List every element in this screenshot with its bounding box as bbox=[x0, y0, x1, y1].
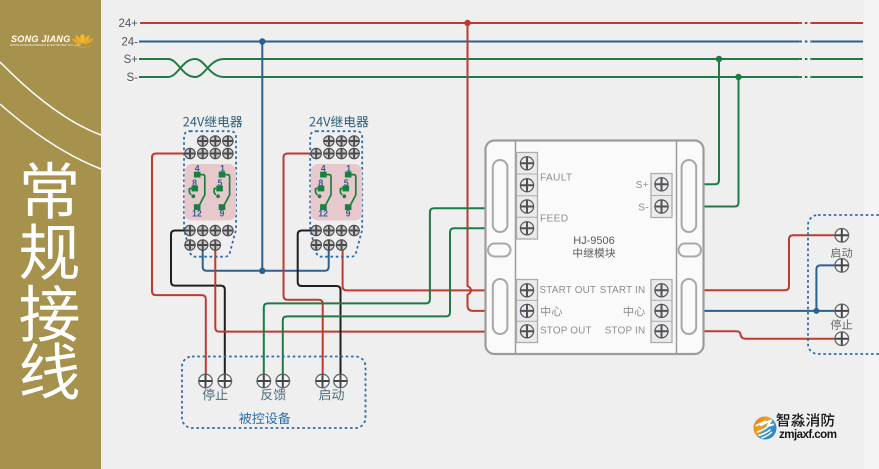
svg-text:START OUT: START OUT bbox=[540, 285, 597, 296]
svg-text:1: 1 bbox=[346, 164, 351, 174]
relay K1 dashed outline bbox=[184, 131, 236, 257]
svg-text:24+: 24+ bbox=[118, 18, 138, 30]
module left lower terminal block bbox=[517, 280, 538, 343]
svg-text:S-: S- bbox=[638, 202, 649, 213]
wire module 中心 to 停止 (blue) bbox=[703, 310, 835, 312]
controlled device dashed box 被控设备 bbox=[182, 357, 366, 429]
wire module STOP IN to 停止 (red) bbox=[703, 331, 835, 338]
node S- junction bbox=[735, 74, 741, 80]
terminal pair 反馈 bbox=[257, 374, 290, 388]
module left upper terminal block (FAULT/FEED) bbox=[517, 153, 538, 240]
svg-text:5: 5 bbox=[344, 178, 349, 188]
svg-text:S+: S+ bbox=[636, 180, 649, 191]
node 24- junction bbox=[259, 38, 265, 44]
node 中心 junction bbox=[813, 308, 819, 314]
wire module FEED b to 反馈 (green) bbox=[283, 228, 487, 381]
relay K2 label 24V继电器 bbox=[309, 116, 368, 128]
wire 24- drop to relay bus bbox=[261, 42, 263, 271]
svg-text:FEED: FEED bbox=[540, 213, 568, 224]
svg-text:S-: S- bbox=[127, 72, 139, 84]
svg-text:12: 12 bbox=[318, 209, 328, 219]
relay K1 label 24V继电器 bbox=[183, 116, 242, 128]
wire S- bus (green, twisted pair) bbox=[139, 59, 863, 77]
svg-text:4: 4 bbox=[195, 164, 200, 174]
node S+ junction bbox=[716, 56, 722, 62]
module mounting slots bbox=[488, 160, 701, 334]
module HJ-9506 body bbox=[486, 141, 704, 355]
svg-text:S+: S+ bbox=[124, 54, 139, 66]
svg-text:5: 5 bbox=[218, 178, 223, 188]
relay K2 screw terminals bbox=[311, 136, 359, 250]
wire S- drop to module bbox=[703, 77, 739, 207]
logo SONG JIANG bbox=[10, 34, 94, 48]
wire S+ drop to module bbox=[703, 59, 719, 184]
svg-text:12: 12 bbox=[192, 209, 202, 219]
relay K2 contact block bbox=[311, 164, 363, 221]
svg-text:zmjaxf.com: zmjaxf.com bbox=[779, 428, 837, 441]
wire S+ bus (green, twisted pair) bbox=[139, 59, 863, 77]
wire 中心 branch up (blue) bbox=[816, 265, 834, 311]
wire relay K2 to module START OUT (red) bbox=[343, 245, 487, 290]
terminal 停止 return bbox=[835, 332, 849, 346]
sidebar gold panel bbox=[0, 0, 101, 469]
module right lower terminal block bbox=[651, 280, 672, 343]
node relay 24- bus junction bbox=[259, 268, 265, 274]
wire module START IN to 启动 (red) bbox=[703, 235, 836, 290]
wire relay K1 coil+ red to 停止 terminal bbox=[152, 154, 206, 382]
terminal pair 启动 bbox=[316, 374, 348, 388]
wire 24+ bus (red) bbox=[140, 22, 863, 24]
svg-text:SONGJIANG/SHANGHAI ELECTRONIC: SONGJIANG/SHANGHAI ELECTRONIC CO.,LTD bbox=[10, 43, 81, 47]
wire 24+ drop to module 中心 (with hop) bbox=[468, 23, 487, 311]
wire 24- bus (blue) bbox=[139, 41, 863, 43]
wire 24- bus between relay coils (blue) bbox=[203, 245, 329, 271]
module right upper terminal block (S+/S-) bbox=[651, 174, 672, 218]
wire relay K2 contact black to 启动 terminal bbox=[298, 231, 341, 382]
智淼消防 text bbox=[776, 413, 834, 427]
terminal 启动 return bbox=[835, 259, 849, 273]
node 24+ junction bbox=[464, 20, 470, 26]
wire relay K1 to module STOP OUT (red) bbox=[215, 245, 486, 332]
terminal 停止 (stop) bbox=[835, 304, 849, 318]
right control dashed box bbox=[808, 215, 879, 354]
svg-text:HJ-9506: HJ-9506 bbox=[573, 235, 615, 247]
terminal 启动 (start) bbox=[835, 229, 849, 243]
module pin labels bbox=[540, 173, 649, 225]
wire module FEED a to 反馈 (green) bbox=[264, 208, 487, 381]
svg-text:9: 9 bbox=[219, 209, 224, 219]
svg-text:8: 8 bbox=[318, 178, 323, 188]
sidebar vertical title 常规接线 bbox=[20, 162, 78, 400]
wire relay K2 coil+ red to 启动 terminal bbox=[284, 154, 323, 382]
svg-text:STOP IN: STOP IN bbox=[605, 326, 646, 337]
svg-text:FAULT: FAULT bbox=[540, 173, 572, 184]
relay K1 screw terminals bbox=[185, 136, 233, 250]
label 被控设备 bbox=[239, 412, 290, 424]
svg-text:9: 9 bbox=[346, 209, 351, 219]
svg-text:START IN: START IN bbox=[600, 285, 646, 296]
wire relay K1 contact black to 停止 terminal bbox=[171, 231, 225, 382]
svg-text:STOP OUT: STOP OUT bbox=[540, 326, 592, 337]
svg-text:1: 1 bbox=[220, 164, 225, 174]
module 中心 labels bbox=[541, 306, 562, 316]
zmjaxf logo bbox=[754, 417, 777, 440]
relay K1 contact block bbox=[185, 164, 237, 221]
svg-text:24-: 24- bbox=[121, 37, 138, 49]
svg-text:4: 4 bbox=[321, 164, 326, 174]
terminal pair 停止 bbox=[199, 374, 232, 388]
svg-text:8: 8 bbox=[192, 178, 197, 188]
relay K2 dashed outline bbox=[310, 131, 362, 257]
